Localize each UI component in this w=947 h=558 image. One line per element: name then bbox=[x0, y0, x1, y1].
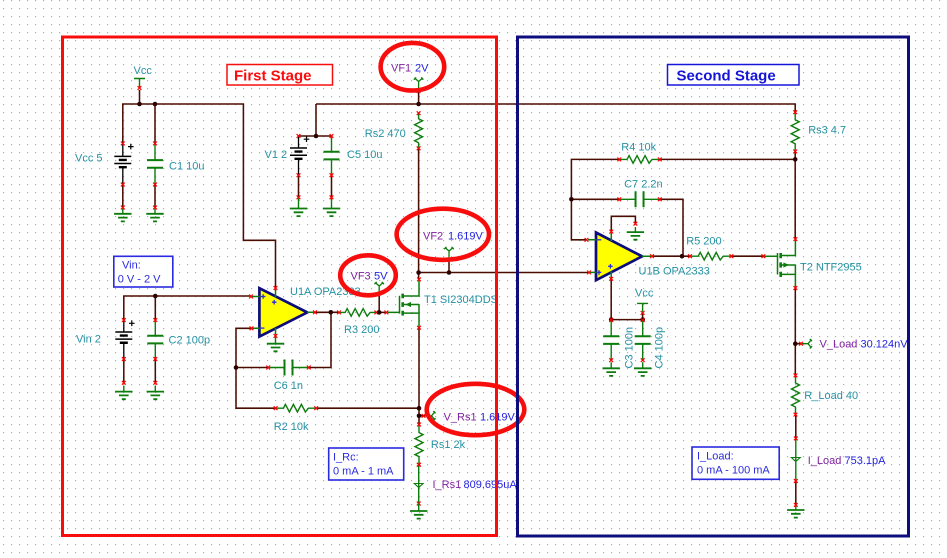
wire C1 to rail bbox=[154, 104, 156, 143]
svg-text:V_Load: V_Load bbox=[820, 339, 858, 351]
battery Vcc 5 bbox=[122, 143, 124, 184]
svg-text:753.1pA: 753.1pA bbox=[845, 455, 887, 467]
svg-text:809.695uA: 809.695uA bbox=[464, 479, 518, 491]
second stage frame bbox=[518, 37, 909, 536]
wire Vin battery to U1A noninverting input bbox=[124, 296, 251, 320]
wire VF2 probe stem bbox=[448, 258, 450, 273]
node junction V_Load node bbox=[793, 341, 798, 346]
transistor T2 NTF2955 pmos bbox=[763, 253, 777, 275]
capacitor C4 100p bbox=[642, 320, 644, 360]
wire U1A inverting input to feedback bbox=[236, 328, 276, 408]
wire inv node to C7 bbox=[571, 198, 619, 200]
ground under C4 bbox=[642, 362, 644, 368]
wire C6 to output node bbox=[309, 312, 331, 367]
node junctions second stage Vcc rail bbox=[609, 317, 614, 322]
voltage pin VF2 bbox=[444, 247, 453, 257]
svg-text:Second Stage: Second Stage bbox=[677, 68, 776, 85]
svg-text:VF1: VF1 bbox=[391, 63, 411, 75]
wire Vcc pin stem bbox=[139, 90, 141, 104]
svg-text:Rs1 2k: Rs1 2k bbox=[431, 439, 466, 451]
voltage pin VF3 bbox=[375, 282, 384, 292]
svg-text:U1B OPA2333: U1B OPA2333 bbox=[639, 266, 710, 278]
node junction U1B output bbox=[680, 254, 685, 259]
wire Rs3 bottom to T2 drain bbox=[794, 151, 796, 239]
wire U1B inverting input loop bbox=[571, 159, 619, 239]
resistor Rs1 2k bbox=[415, 425, 423, 465]
wire U1A output to R3 bbox=[315, 311, 339, 313]
red ellipse around VF3 bbox=[340, 255, 396, 295]
svg-text:T1 SI2304DDS: T1 SI2304DDS bbox=[424, 294, 498, 306]
svg-text:0 mA - 100 mA: 0 mA - 100 mA bbox=[697, 465, 770, 477]
capacitor C6 1n bbox=[268, 367, 309, 369]
svg-text:I_Rc:: I_Rc: bbox=[333, 452, 359, 464]
svg-text:C7 2.2n: C7 2.2n bbox=[624, 179, 663, 191]
transistor T1 SI2304DDS nmos bbox=[386, 296, 399, 314]
svg-text:VF2: VF2 bbox=[423, 231, 443, 243]
resistor R2 10k bbox=[276, 404, 317, 412]
wire drain node to U1B noninverting input bbox=[419, 272, 589, 274]
svg-text:5V: 5V bbox=[374, 270, 388, 282]
resistor R3 200 bbox=[339, 309, 376, 317]
svg-text:Vin 2: Vin 2 bbox=[76, 334, 101, 346]
svg-text:V1 2: V1 2 bbox=[265, 149, 288, 161]
ammeter I_Load bbox=[795, 438, 797, 481]
wire 2V rail across stages bbox=[316, 104, 795, 112]
wire V_Load probe stub bbox=[795, 343, 801, 345]
wire battery Vcc5 to ground bbox=[122, 185, 124, 208]
wire C5 to ground bbox=[331, 175, 333, 197]
svg-text:1.619V: 1.619V bbox=[448, 231, 484, 243]
svg-text:R5 200: R5 200 bbox=[686, 235, 721, 247]
battery Vin 2 bbox=[123, 320, 125, 359]
svg-text:C2 100p: C2 100p bbox=[169, 335, 211, 347]
first stage title box bbox=[227, 65, 333, 86]
wire Vin battery to ground bbox=[123, 359, 125, 383]
wire Vcc pin 2 stem bbox=[642, 314, 644, 320]
node junction source node bbox=[417, 406, 422, 411]
op-amp U1B bbox=[596, 233, 642, 281]
svg-text:C3 100n: C3 100n bbox=[624, 327, 636, 369]
wire V1 C5 top junction bbox=[299, 135, 332, 137]
wire C1 to ground bbox=[154, 185, 156, 208]
svg-text:Vcc 5: Vcc 5 bbox=[75, 153, 103, 165]
wire Vcc rail to op-amp U1A power bbox=[123, 104, 276, 288]
svg-text:I_Rs1: I_Rs1 bbox=[433, 479, 462, 491]
ammeter I_Rs1 bbox=[418, 465, 420, 504]
wire V_Rs1 probe stub bbox=[419, 415, 425, 417]
ground under V1 bbox=[298, 198, 300, 209]
wire U1B power pin to Vcc rail bbox=[610, 279, 612, 320]
node junction dots top rails bbox=[137, 102, 142, 107]
svg-text:0 V - 2 V: 0 V - 2 V bbox=[118, 274, 161, 286]
wire R5 to T2 gate bbox=[731, 255, 763, 257]
I_Load control box bbox=[692, 447, 779, 479]
svg-text:30.124nV: 30.124nV bbox=[861, 339, 909, 351]
ground under C3 bbox=[610, 362, 612, 368]
wire R3 to T1 gate bbox=[376, 311, 386, 313]
node junction inv node bbox=[569, 197, 574, 202]
svg-text:R_Load 40: R_Load 40 bbox=[804, 390, 858, 402]
svg-text:V_Rs1: V_Rs1 bbox=[444, 412, 477, 424]
ground for U1B bbox=[634, 227, 636, 232]
svg-text:0 mA - 1 mA: 0 mA - 1 mA bbox=[333, 466, 394, 478]
ground under I_Rs1 bbox=[418, 504, 420, 512]
wire T2 source to V_Load node bbox=[794, 288, 796, 375]
wire V1 to ground bbox=[298, 175, 300, 197]
svg-text:VF3: VF3 bbox=[351, 270, 371, 282]
svg-text:C4 100p: C4 100p bbox=[654, 327, 666, 369]
svg-text:C1 10u: C1 10u bbox=[169, 161, 204, 173]
resistor R4 10k bbox=[619, 156, 660, 164]
red ellipse around VF2 bbox=[397, 209, 489, 260]
op-amp U1A bbox=[259, 288, 307, 336]
wire V1 riser to rail bbox=[315, 104, 317, 136]
svg-text:First Stage: First Stage bbox=[234, 68, 312, 85]
wire Rs1 bottom stub bbox=[418, 464, 420, 466]
first stage frame bbox=[63, 37, 497, 536]
node junction drain branch bbox=[416, 270, 421, 275]
svg-text:Vcc: Vcc bbox=[134, 65, 153, 77]
ground under C2 bbox=[154, 386, 156, 392]
wire R4 to sense node bbox=[660, 158, 795, 160]
red ellipse around VF1 bbox=[381, 43, 445, 91]
ground under C1 bbox=[154, 208, 156, 214]
wire Rs2 to T1 drain bbox=[418, 148, 420, 279]
svg-text:R2 10k: R2 10k bbox=[274, 421, 309, 433]
resistor Rs2 470 bbox=[415, 113, 423, 148]
svg-text:I_Load: I_Load bbox=[808, 455, 842, 467]
svg-text:Vcc: Vcc bbox=[635, 287, 654, 299]
ground under C5 bbox=[331, 198, 333, 209]
wire I_Load to ground bbox=[795, 481, 797, 505]
wire R_Load to I_Load ammeter bbox=[795, 415, 797, 439]
capacitor C3 100n bbox=[610, 320, 612, 360]
wire VF1 probe stem bbox=[418, 92, 420, 104]
power pin Vcc (second stage) bbox=[637, 303, 648, 312]
wire U1B output to R5 bbox=[652, 255, 690, 257]
svg-text:R3 200: R3 200 bbox=[344, 324, 379, 336]
I_Rc control box bbox=[329, 448, 404, 480]
wire C7 right to output node bbox=[660, 199, 683, 256]
wire VF3 probe stem bbox=[378, 293, 380, 313]
node junction dots mid bbox=[234, 365, 239, 370]
wire C2 to ground bbox=[154, 359, 156, 383]
ground under Vcc battery bbox=[122, 208, 124, 214]
battery V1 2 bbox=[298, 136, 300, 175]
svg-text:R4 10k: R4 10k bbox=[621, 141, 656, 153]
svg-text:Vin:: Vin: bbox=[122, 260, 141, 272]
wire U1B ground pin loop bbox=[611, 216, 635, 231]
power pin Vcc (first stage) bbox=[134, 79, 145, 88]
wire C2 to Vin rail bbox=[154, 296, 156, 320]
resistor R_Load 40 bbox=[792, 375, 800, 414]
wire feedback node to C6 bbox=[236, 367, 268, 369]
svg-text:C6 1n: C6 1n bbox=[274, 380, 303, 392]
wire second stage Vcc rail bbox=[611, 319, 643, 321]
svg-text:I_Load:: I_Load: bbox=[697, 451, 734, 463]
wire R2 to source node bbox=[316, 407, 419, 409]
Vin control box bbox=[114, 256, 173, 287]
ground under U1A bbox=[275, 337, 277, 344]
svg-text:T2 NTF2955: T2 NTF2955 bbox=[800, 261, 862, 273]
capacitor C2 100p bbox=[154, 320, 156, 359]
resistor Rs3 4.7 bbox=[791, 112, 799, 151]
voltage pin VF1 bbox=[414, 78, 423, 88]
ground under Vin battery bbox=[123, 386, 125, 392]
svg-text:2V: 2V bbox=[415, 63, 429, 75]
red ellipse around V_Rs1 bbox=[427, 384, 525, 435]
capacitor C7 2.2n bbox=[619, 198, 660, 200]
capacitor C1 10u bbox=[154, 143, 156, 184]
svg-text:Rs3 4.7: Rs3 4.7 bbox=[808, 125, 846, 137]
resistor R5 200 bbox=[690, 252, 731, 260]
voltage pin V_Rs1 bbox=[425, 411, 435, 420]
svg-text:Rs2 470: Rs2 470 bbox=[365, 128, 406, 140]
capacitor C5 10u bbox=[331, 136, 333, 175]
voltage pin V_Load bbox=[802, 339, 812, 348]
second stage title box bbox=[668, 65, 800, 86]
ground under I_Load bbox=[795, 505, 797, 510]
svg-text:C5 10u: C5 10u bbox=[347, 149, 382, 161]
node junction Vin rail bbox=[153, 294, 158, 299]
node junction sense node bbox=[793, 157, 798, 162]
wire T1 source down to Rs1 bbox=[418, 328, 420, 425]
